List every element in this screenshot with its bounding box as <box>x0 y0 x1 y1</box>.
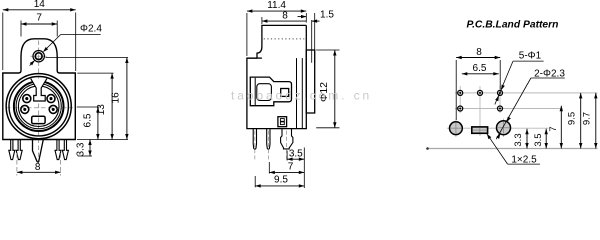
svg-text:3.3: 3.3 <box>76 142 87 156</box>
svg-text:9.7: 9.7 <box>581 112 592 125</box>
svg-text:8: 8 <box>35 162 41 173</box>
svg-text:taobaodz.com. cn: taobaodz.com. cn <box>231 89 372 103</box>
svg-text:3.5: 3.5 <box>533 133 544 146</box>
svg-text:3.5: 3.5 <box>289 148 303 159</box>
svg-text:9.5: 9.5 <box>567 112 578 125</box>
svg-text:8: 8 <box>476 47 482 58</box>
svg-text:1×2.5: 1×2.5 <box>511 154 537 165</box>
svg-text:6.5: 6.5 <box>473 63 487 74</box>
svg-text:5-Φ1: 5-Φ1 <box>519 51 542 62</box>
svg-text:8: 8 <box>282 11 288 22</box>
svg-text:P.C.B.Land Pattern: P.C.B.Land Pattern <box>467 20 559 31</box>
svg-text:7: 7 <box>288 161 294 172</box>
svg-text:7: 7 <box>36 13 42 24</box>
svg-text:9.5: 9.5 <box>274 175 288 186</box>
svg-text:6.5: 6.5 <box>83 113 94 127</box>
svg-text:3.3: 3.3 <box>513 133 524 146</box>
svg-text:Φ2.4: Φ2.4 <box>80 24 102 35</box>
svg-text:14: 14 <box>34 0 46 10</box>
svg-text:7: 7 <box>548 126 559 131</box>
svg-text:1.5: 1.5 <box>320 10 334 21</box>
